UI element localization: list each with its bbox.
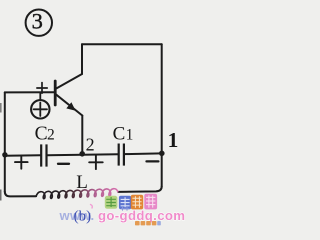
- wire left vertical: [4, 92, 6, 191]
- svg-text:C1: C1: [113, 123, 134, 144]
- minus sign C1: [147, 160, 159, 162]
- watermark small blue mark: [121, 207, 130, 211]
- wire collector vertical: [81, 44, 83, 74]
- wire emitter vertical: [81, 116, 83, 155]
- capacitor C2 plates: [41, 144, 46, 166]
- wire right vertical: [161, 44, 163, 186]
- watermark char 2 blue: [119, 196, 131, 209]
- wire top: [82, 43, 162, 45]
- watermark small orange text: [135, 221, 161, 225]
- svg-text:3: 3: [32, 8, 43, 33]
- source symbol (circle-plus): [31, 92, 49, 118]
- svg-text:(b): (b): [74, 208, 92, 224]
- watermark char 4 pink: [144, 194, 157, 210]
- svg-text:1: 1: [168, 128, 179, 152]
- capacitor C1 plates: [119, 144, 124, 166]
- transistor Q1: [55, 74, 82, 116]
- minus sign C2: [58, 163, 69, 165]
- label circled 3: [26, 10, 52, 36]
- wire caps right: [124, 152, 162, 155]
- scan smudge left edge lower: [0, 190, 2, 201]
- left junction dot: [2, 152, 7, 157]
- svg-text:go-gddq.com: go-gddq.com: [98, 208, 185, 223]
- node 2 junction dot: [79, 151, 85, 157]
- plus sign C2: [15, 156, 28, 168]
- plus sign C1: [89, 156, 103, 169]
- wire bottom right: [118, 187, 162, 192]
- svg-text:C2: C2: [35, 124, 55, 145]
- transistor emitter arrow: [66, 102, 75, 111]
- plus sign at base: [37, 83, 47, 94]
- watermark char 1 green: [105, 196, 118, 209]
- node 1 junction dot: [159, 151, 165, 157]
- wire bottom left: [5, 192, 36, 197]
- watermark char 3 orange: [131, 195, 143, 210]
- wire caps left: [5, 154, 41, 156]
- svg-text:2: 2: [86, 135, 95, 155]
- watermark pink tick: [91, 205, 93, 209]
- wire caps middle: [47, 154, 118, 155]
- wire base horizontal: [5, 91, 54, 93]
- scan smudge left edge upper: [0, 103, 2, 113]
- svg-text:L: L: [76, 172, 88, 193]
